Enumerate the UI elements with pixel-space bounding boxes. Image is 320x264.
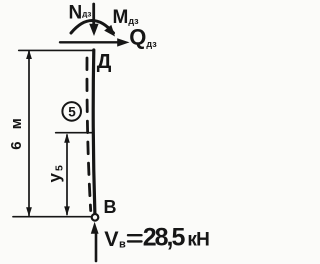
svg-text:B: B: [104, 197, 117, 217]
svg-text:в: в: [119, 239, 126, 251]
equals sign: [128, 234, 142, 236]
bottom extension line: [13, 216, 91, 218]
node B (hinge circle): [92, 214, 99, 221]
top extension line: [19, 49, 93, 51]
svg-text:5: 5: [68, 104, 76, 119]
dimension line 6 m (vertical, left): [28, 51, 30, 216]
svg-text:Д: Д: [97, 50, 112, 73]
dimension line y5 (vertical): [66, 135, 68, 215]
moment arc arrowhead: [104, 25, 115, 37]
force arrow Q (horizontal, rightward): [60, 41, 119, 43]
column member (solid line): [93, 50, 95, 214]
label 6 m (rotated): [8, 114, 25, 150]
svg-text:кН: кН: [187, 229, 209, 250]
svg-text:6 м: 6 м: [8, 114, 25, 150]
column axis (dashed line): [87, 58, 91, 211]
section mark circled 5: [62, 102, 81, 121]
force arrow N (downward): [92, 4, 95, 26]
y5 top tick line: [56, 132, 93, 134]
svg-text:V: V: [104, 227, 119, 251]
svg-text:28,5: 28,5: [143, 224, 186, 252]
label y5 (rotated): [45, 163, 66, 182]
reaction arrow V (upward): [95, 234, 98, 261]
moment arc M (clockwise): [71, 21, 114, 34]
